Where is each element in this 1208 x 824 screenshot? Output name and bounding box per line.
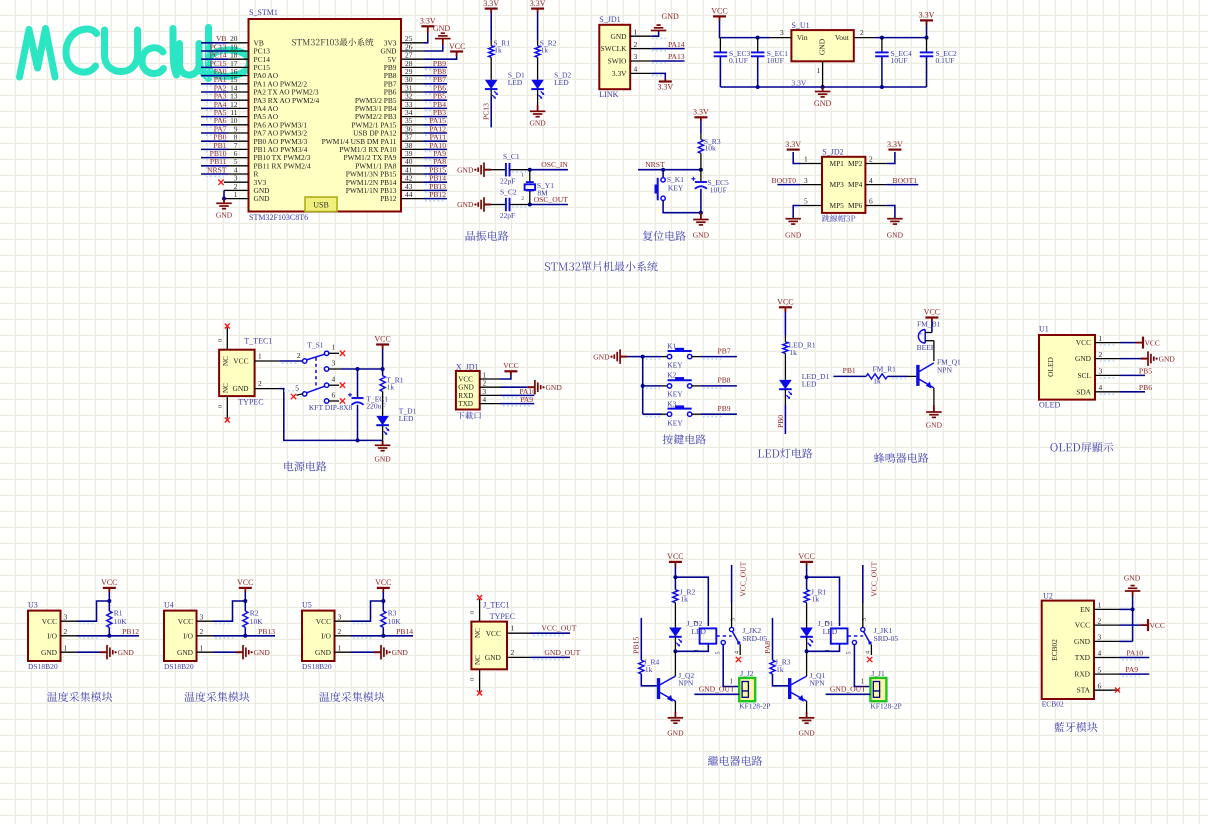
mcu right pin 30 net PB7 [401, 83, 424, 85]
wire net PA6 to pin 10 [201, 124, 228, 126]
svg-text:1k: 1k [494, 46, 502, 55]
led T_D1 [376, 416, 389, 425]
svg-text:0.1UF: 0.1UF [729, 56, 748, 65]
svg-text:0: 0 [469, 611, 476, 614]
relay J_JK2 coil [700, 628, 717, 643]
svg-text:NC: NC [222, 356, 230, 366]
svg-text:3: 3 [483, 388, 487, 396]
svg-text:X_JD1: X_JD1 [456, 362, 479, 371]
svg-text:OSC_IN: OSC_IN [541, 160, 568, 169]
wire net PB6 [1120, 391, 1145, 393]
svg-text:1: 1 [258, 351, 262, 360]
wire net PA1 to pin 15 [201, 83, 228, 85]
capacitor T_EC1 220uF [357, 369, 359, 398]
svg-text:2: 2 [483, 380, 487, 388]
svg-text:1: 1 [483, 371, 487, 379]
wire VCC to Vin rail [720, 21, 771, 38]
svg-text:J_J2: J_J2 [740, 669, 754, 678]
wire emitter to ground [806, 701, 808, 712]
svg-text:1: 1 [511, 624, 515, 633]
wire oled pin2 to ground [1120, 358, 1141, 360]
svg-text:TXD: TXD [458, 400, 473, 408]
mcu right pin 43 net PB13 [401, 189, 424, 191]
caption temperature module U5 [319, 692, 329, 702]
svg-text:5: 5 [847, 652, 853, 655]
svg-text:PA13: PA13 [668, 52, 685, 61]
svg-text:PB14: PB14 [396, 627, 413, 636]
connector J_TEC1 bottom shield pin [479, 669, 481, 691]
svg-text:PB15: PB15 [632, 637, 641, 654]
wire S_JD2 pin6 to ground [887, 206, 895, 219]
svg-text:VCC: VCC [237, 578, 253, 587]
svg-text:NPN: NPN [810, 679, 826, 688]
wire VCC to buzzer [931, 321, 933, 333]
svg-text:TYPEC: TYPEC [238, 398, 263, 407]
wire relay common to connector [723, 645, 739, 687]
wire S_JD2 pin2 to 3.3V [887, 152, 895, 164]
wire emitter to ground [674, 701, 676, 712]
wire net VCC_OUT contact [862, 603, 864, 627]
wire net PB1 to base [833, 375, 866, 377]
wire net PB7 [701, 356, 737, 358]
caption key circuit [663, 434, 673, 444]
caption reset circuit [643, 231, 653, 241]
svg-text:TXD: TXD [1075, 653, 1091, 662]
svg-text:GND: GND [785, 230, 802, 239]
mcu right pin 36 net PA12 [401, 132, 424, 134]
svg-text:GND: GND [177, 648, 194, 657]
wire net VCC_OUT contact [731, 603, 733, 627]
crystal S_Y1 8M [529, 170, 531, 182]
svg-text:3: 3 [64, 612, 68, 621]
svg-text:KF128-2P: KF128-2P [739, 702, 770, 711]
svg-text:10K: 10K [250, 617, 263, 626]
capacitor S_C1 22pF [505, 163, 507, 177]
power VCC above R1 [103, 587, 116, 589]
svg-text:10k: 10k [705, 144, 717, 153]
connector J_TEC1 body [471, 622, 507, 670]
resistor S_R2 1k [535, 46, 540, 58]
wire Vout rail to 3.3V [875, 37, 926, 39]
svg-text:5: 5 [716, 652, 722, 655]
svg-text:2: 2 [860, 28, 864, 37]
wire bluetooth pin3 GND [1120, 640, 1133, 642]
wire S_JD2 pin5 to ground [793, 206, 800, 219]
svg-text:VCC: VCC [486, 629, 501, 638]
svg-text:6: 6 [332, 390, 336, 399]
svg-text:3: 3 [332, 358, 336, 367]
resistor J_R2 1k [673, 590, 678, 603]
switch T_S1 pin5 stub [291, 394, 296, 399]
wire net PA10 bluetooth [1120, 657, 1150, 659]
svg-text:GND: GND [1074, 637, 1091, 646]
ground below J_Q1 [799, 717, 815, 719]
svg-text:5: 5 [804, 197, 808, 206]
svg-text:1k: 1k [680, 595, 688, 604]
MCUclub logo [20, 29, 56, 78]
svg-text:U2: U2 [1043, 592, 1053, 601]
ground below mcu pins 1,2 [223, 199, 225, 204]
transistor FM_Q1 NPN [916, 365, 919, 386]
power 3.3V regulator output [920, 19, 933, 21]
svg-text:1k: 1k [645, 665, 653, 674]
bluetooth STA no-connect [1094, 689, 1113, 691]
relay J_JK1 contacts [861, 627, 865, 631]
svg-text:K1: K1 [667, 341, 676, 350]
resistor R3 10K [381, 611, 386, 627]
oled U1 pin 3 [1095, 374, 1120, 376]
svg-text:1: 1 [825, 649, 831, 652]
temp module U4 pin1 to ground [197, 651, 214, 653]
wire net PC13 to pin 19 [201, 50, 228, 52]
connector J_TEC1 pin1 wire net VCC_OUT [507, 632, 530, 634]
svg-text:I/O: I/O [183, 631, 194, 640]
svg-text:MP1: MP1 [830, 159, 845, 168]
svg-text:GND: GND [593, 352, 610, 361]
wire S_JD1 pin4 to 3.3V [652, 73, 666, 79]
caption LED circuit [758, 449, 764, 457]
switch T_S1 pin1 stub [329, 352, 339, 354]
resistor J_R1 1k [804, 590, 809, 603]
svg-text:10UF: 10UF [767, 56, 784, 65]
capacitor S_EC3 0.1UF [719, 38, 721, 53]
power VCC above T_R1 [376, 343, 389, 345]
connector S_JD2 type label [822, 215, 830, 222]
svg-text:3.3V: 3.3V [887, 140, 903, 149]
mcu pin 3 no-connect stub [224, 181, 249, 183]
svg-text:DS18B20: DS18B20 [302, 662, 332, 671]
svg-text:VCC: VCC [458, 376, 473, 384]
wire to capacitor S_C1 [491, 169, 506, 171]
connector S_JD1 pin 4 [630, 72, 652, 74]
svg-text:PA10: PA10 [1126, 649, 1143, 658]
wire ground to key rail [627, 356, 643, 358]
svg-text:1k: 1k [812, 595, 820, 604]
svg-text:PB12: PB12 [122, 627, 139, 636]
svg-text:KEY: KEY [667, 390, 683, 399]
wire net PB10 to pin 6 [201, 157, 228, 159]
wire to capacitor S_C2 [491, 204, 506, 206]
svg-text:VCC: VCC [101, 578, 117, 587]
svg-text:S_STM1: S_STM1 [249, 8, 278, 17]
svg-text:T_TEC1: T_TEC1 [244, 337, 272, 346]
svg-text:GND: GND [216, 211, 233, 220]
svg-text:STM32F103C8T6: STM32F103C8T6 [249, 213, 308, 222]
svg-text:VCC: VCC [1076, 338, 1091, 347]
svg-text:MP3: MP3 [830, 180, 845, 189]
svg-text:U1: U1 [1039, 325, 1049, 334]
wire net PA10 [500, 394, 534, 396]
power 3.3V above S_R2 [531, 8, 544, 10]
power VCC above buzzer [925, 316, 938, 318]
wire VCC to T_R1 [382, 349, 384, 376]
wire net PB1 to pin 7 [201, 148, 228, 150]
svg-text:K3: K3 [667, 399, 676, 408]
connector X_JD1 pin 3 [480, 394, 500, 396]
svg-text:NC: NC [474, 628, 482, 638]
svg-text:VCC: VCC [374, 335, 390, 344]
svg-text:6: 6 [1098, 681, 1102, 690]
svg-text:1: 1 [694, 649, 700, 652]
svg-text:PB7: PB7 [718, 346, 731, 355]
svg-text:3: 3 [338, 612, 342, 621]
connector X_JD1 body [456, 371, 480, 410]
power 3.3V below S_JD1 [659, 80, 672, 82]
svg-text:3.3V: 3.3V [785, 140, 801, 149]
wire net PA14 [652, 48, 685, 50]
svg-text:SWCLK: SWCLK [601, 44, 628, 53]
relay J_JK2 contacts [730, 627, 734, 631]
svg-text:VCC: VCC [711, 7, 727, 16]
svg-text:5: 5 [295, 384, 299, 393]
wire S_D2 cathode to ground [537, 89, 539, 105]
relay J_JK1 coil bottom wire [807, 644, 840, 652]
svg-text:VCC: VCC [924, 308, 940, 317]
svg-text:10K: 10K [388, 617, 402, 626]
svg-text:BOOT0: BOOT0 [772, 176, 797, 185]
temp module U3 pin3 wire [61, 620, 78, 622]
ground above S_JD1 pin1 [651, 30, 667, 32]
svg-text:3.3V: 3.3V [693, 108, 709, 117]
svg-text:U5: U5 [302, 600, 312, 609]
svg-text:PB12: PB12 [429, 190, 446, 199]
resistor J_R4 1k [639, 660, 644, 674]
caption download port [457, 412, 465, 420]
connector S_JD2 pin 3 [801, 184, 822, 186]
svg-text:2: 2 [869, 155, 873, 164]
wire net PA9 bluetooth [1120, 673, 1150, 675]
ground right of mcu top [435, 38, 451, 40]
svg-text:1: 1 [521, 172, 524, 178]
power VCC regulator input [713, 15, 726, 17]
led S_D2 [531, 80, 544, 89]
wire T_D1 to ground rail [382, 426, 384, 441]
regulator S_U1 body [791, 30, 853, 61]
mcu right pin 33 net PB4 [401, 107, 424, 109]
regulator pin 1 GND [822, 61, 824, 87]
svg-text:FM_R1: FM_R1 [873, 365, 897, 374]
ground below regulator rail [822, 87, 824, 92]
bluetooth U2 pin 3 [1094, 640, 1120, 642]
wire collector [806, 651, 808, 676]
mcu right pin 31 net PB6 [401, 91, 424, 93]
mcu right pin 44 net PB12 [401, 198, 424, 200]
svg-text:KFT DIP-8X8: KFT DIP-8X8 [309, 403, 353, 412]
mcu right pin 25 [401, 42, 424, 44]
ground below reset circuit [699, 211, 703, 215]
wire buzzer to FM_Q1 collector [933, 341, 935, 361]
svg-text:GND: GND [798, 729, 815, 738]
temp module U5 pin2 wire net PB14 [335, 635, 352, 637]
relay J_JK2 linkage [716, 635, 731, 637]
svg-text:PB0: PB0 [776, 415, 785, 428]
svg-text:3: 3 [1098, 633, 1102, 642]
switch T_S1 pin4 stub [329, 384, 339, 386]
relay J_JK2 NC contact stub [739, 644, 741, 655]
ground below FM_Q1 [926, 411, 942, 413]
oled U1 pin 4 [1095, 391, 1120, 393]
caption bluetooth module [1054, 722, 1064, 732]
wire LED_R1 to LED_D1 [784, 353, 786, 380]
wire VCC split [674, 566, 676, 590]
svg-text:3.3V: 3.3V [657, 82, 673, 91]
svg-text:VCC: VCC [1150, 621, 1165, 630]
power VCC above R3 [377, 587, 390, 589]
svg-text:VCC: VCC [233, 357, 248, 366]
svg-text:VCC: VCC [777, 298, 793, 307]
mcu right pin 29 net PB8 [401, 75, 424, 77]
resistor FM_R1 1k [866, 374, 887, 379]
svg-text:Vout: Vout [835, 33, 850, 42]
svg-text:MP6: MP6 [848, 201, 863, 210]
svg-text:4: 4 [332, 375, 336, 384]
svg-text:1k: 1k [776, 665, 784, 674]
svg-text:GND: GND [546, 383, 563, 392]
wire S_K1 to ground rail [663, 201, 701, 213]
wire net PB0 to pin 8 [201, 140, 228, 142]
oled U1 body [1039, 335, 1095, 400]
wire net PC15 to pin 17 [201, 66, 228, 68]
capacitor S_EC2 0.1UF [926, 38, 928, 53]
svg-text:GND: GND [818, 38, 827, 55]
wire relay common to connector [854, 645, 870, 687]
svg-text:3: 3 [200, 612, 204, 621]
svg-text:GND: GND [392, 648, 409, 657]
relay J_JK1 coil [831, 628, 848, 643]
wire pin27 to VCC bar [424, 55, 457, 59]
svg-text:PA9: PA9 [1125, 665, 1138, 674]
capacitor S_EC1 10UF [757, 38, 759, 53]
capacitor S_EC5 10UF [700, 170, 702, 182]
wire net PA3 to pin 13 [201, 99, 228, 101]
svg-text:PA8: PA8 [763, 641, 772, 654]
svg-text:2: 2 [634, 40, 638, 49]
svg-text:OLED: OLED [1039, 401, 1061, 410]
ground left of S_C2 [484, 204, 491, 206]
svg-text:VCC: VCC [449, 42, 465, 51]
wire net NRST [638, 169, 701, 171]
svg-text:VCC_OUT: VCC_OUT [738, 561, 747, 596]
connector S_JD2 body [822, 157, 865, 213]
svg-text:TYPEC: TYPEC [490, 612, 515, 621]
capacitor S_C2 22pF [505, 198, 507, 212]
svg-text:GND: GND [254, 194, 271, 203]
svg-text:GND: GND [610, 32, 627, 41]
svg-text:8M: 8M [537, 188, 548, 197]
mcu S_STM1 body [249, 19, 402, 212]
ground below J_Q2 [668, 717, 684, 719]
wire J_R3 to base [773, 674, 789, 686]
temp module U4 pin3 wire [197, 620, 214, 622]
wire key rail vertical [642, 357, 644, 415]
switch T_S1 pin6 stub [329, 400, 339, 402]
relay J_JK2 coil bottom wire [675, 644, 708, 652]
wire X_JD1 pin2 to ground [500, 386, 528, 388]
connector T_TEC1 body [219, 350, 255, 396]
wire J_R2 to J_D2 [674, 603, 676, 628]
svg-text:RXD: RXD [1074, 670, 1090, 679]
oled U1 pin 1 [1095, 342, 1120, 344]
key S_K1 reset button [662, 170, 664, 178]
wire net PA13 [652, 60, 685, 62]
svg-text:S_JD1: S_JD1 [599, 15, 620, 24]
wire S_D1 cathode to net PC13 [490, 89, 492, 97]
wire bluetooth VCC [1120, 624, 1142, 626]
svg-text:DS18B20: DS18B20 [164, 662, 194, 671]
power VCC right of mcu [450, 50, 463, 52]
wire J_D1 cathode junction [806, 637, 808, 651]
connector S_JD2 pin 5 [801, 205, 822, 207]
svg-text:J_J1: J_J1 [871, 669, 885, 678]
mcu right pin 38 net PA10 [401, 148, 424, 150]
svg-text:LED: LED [554, 78, 569, 87]
svg-text:K2: K2 [667, 370, 676, 379]
svg-text:GND: GND [814, 99, 832, 108]
svg-text:GND: GND [926, 420, 943, 429]
wire net PC14 to pin 18 [201, 58, 228, 60]
svg-text:GND_OUT: GND_OUT [699, 685, 735, 694]
wire S_R1 to S_D1 [490, 57, 492, 80]
svg-text:3.3V: 3.3V [612, 69, 627, 78]
bluetooth U2 pin 1 [1094, 608, 1120, 610]
wire net PA8 to J_R3 [772, 618, 774, 660]
connector J_TEC1 pin2 wire net GND_OUT [507, 656, 530, 658]
wire J_R4 to base [641, 674, 657, 686]
svg-text:0: 0 [217, 339, 224, 342]
svg-text:1: 1 [64, 643, 68, 652]
svg-text:GND: GND [254, 648, 271, 657]
power 3.3V above mcu [421, 25, 434, 27]
svg-text:GND: GND [315, 648, 332, 657]
svg-text:4: 4 [634, 65, 638, 74]
caption crystal circuit [466, 231, 476, 241]
svg-text:NRST: NRST [207, 165, 227, 174]
svg-text:Vin: Vin [797, 33, 808, 42]
svg-text:SWIO: SWIO [608, 57, 628, 66]
wire net OSC_OUT [530, 204, 568, 206]
svg-text:J_TEC1: J_TEC1 [483, 601, 509, 610]
svg-text:3.3V: 3.3V [530, 0, 546, 8]
wire bottom ground rail [720, 86, 926, 88]
svg-text:KEY: KEY [667, 361, 683, 370]
buzzer FM_B1 [918, 330, 925, 344]
svg-text:0: 0 [217, 405, 224, 408]
temp module U5 pin3 wire [335, 620, 352, 622]
relay J_JK1 NC contact stub [870, 644, 872, 655]
wire net GND_OUT to J_J1 [826, 693, 871, 695]
svg-text:MP2: MP2 [848, 159, 863, 168]
svg-text:GND: GND [662, 12, 680, 21]
caption power circuit [284, 461, 293, 471]
mcu USB sub-box [305, 197, 337, 212]
svg-text:GND: GND [1159, 354, 1176, 363]
temp module U3 pin2 wire net PB12 [61, 635, 78, 637]
wire VCC split [806, 566, 808, 590]
mcu right pin 34 net PB3 [401, 116, 424, 118]
svg-text:2: 2 [258, 379, 262, 388]
connector T_TEC1 pin 1 wire [255, 360, 280, 362]
connector X_JD1 pin 2 [480, 386, 500, 388]
svg-text:22pF: 22pF [500, 211, 515, 220]
mcu right pin 41 net PB15 [401, 173, 424, 175]
svg-text:PC13: PC13 [482, 103, 491, 120]
svg-text:VCC: VCC [503, 361, 518, 370]
svg-text:VCC: VCC [798, 552, 814, 561]
svg-text:3: 3 [804, 176, 808, 185]
wire bluetooth EN GND net [1120, 608, 1133, 610]
svg-text:1: 1 [817, 66, 821, 75]
connector T_TEC1 pin 2 wire [255, 388, 280, 390]
